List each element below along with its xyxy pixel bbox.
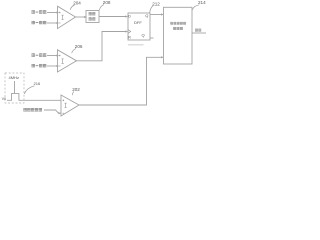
svg-text:DFF: DFF [134,20,142,25]
svg-text:Q: Q [145,13,148,18]
svg-text:214: 214 [198,0,206,5]
svg-text:206: 206 [75,44,83,49]
svg-text:202: 202 [72,87,80,92]
svg-text:208: 208 [103,0,111,5]
svg-text:V0: V0 [2,97,6,101]
svg-text:R: R [128,35,131,39]
svg-text:212: 212 [152,1,160,6]
svg-text:Q: Q [142,32,145,37]
svg-text:216: 216 [34,81,41,86]
svg-text:4MHz: 4MHz [9,75,19,80]
svg-text:204: 204 [73,0,81,5]
svg-text:D: D [128,14,131,18]
